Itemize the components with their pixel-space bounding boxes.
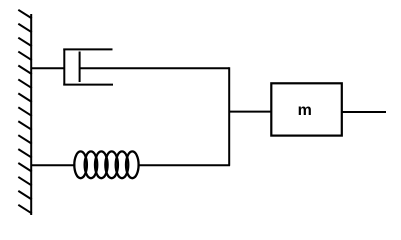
svg-text:m: m [298,102,312,119]
